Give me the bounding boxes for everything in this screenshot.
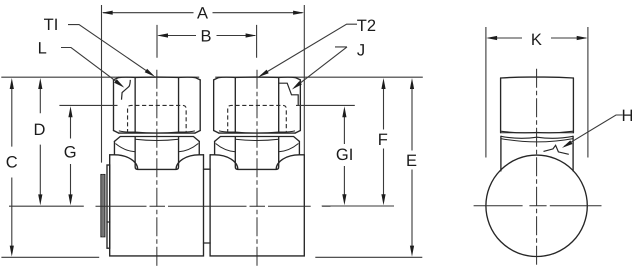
svg-text:H: H (622, 107, 632, 125)
svg-text:T2: T2 (357, 17, 376, 35)
svg-text:G: G (64, 143, 77, 161)
shoulder fillet arcs (114, 155, 137, 170)
nut facet lines (235, 78, 278, 133)
G reference line (59, 104, 117, 106)
main axis centerline (96, 205, 331, 207)
dim A extension lines (102, 5, 305, 163)
dim C line (11, 88, 13, 247)
dim K line (488, 37, 586, 39)
svg-text:D: D (33, 121, 45, 139)
D G bottom reference line (axis level) (9, 205, 84, 207)
svg-text:TI: TI (44, 16, 59, 34)
centerline unit2 vertical (256, 70, 258, 266)
svg-text:A: A (197, 4, 208, 22)
dim B line (159, 35, 256, 37)
coupling nut N2 outline (214, 80, 301, 131)
dim K extension lines (486, 27, 588, 158)
svg-text:K: K (531, 31, 542, 49)
leader T2 (261, 24, 357, 75)
svg-text:E: E (406, 152, 417, 170)
top reference line (nut top plane) (1, 76, 423, 78)
hidden thread (dashed) (128, 105, 187, 133)
leader T1 (68, 25, 153, 75)
end view lower hex sides (501, 136, 573, 171)
leader J (294, 47, 347, 88)
clamp body cylinder (110, 155, 204, 256)
end view nut bottom arcs (501, 131, 574, 133)
G1 reference line (296, 104, 355, 106)
body circle (end view) (486, 155, 587, 256)
svg-text:J: J (357, 41, 365, 59)
F G1 bottom reference line (322, 205, 394, 207)
lower hex flange (114, 137, 199, 142)
dim B extension lines (157, 25, 257, 58)
bottom reference line left (1, 256, 99, 258)
svg-text:B: B (200, 27, 211, 45)
nut facet lines (135, 78, 178, 133)
end view vertical centerline (536, 69, 538, 267)
thread runout mark J (279, 83, 299, 105)
leader L (61, 48, 122, 86)
dim G1 line (343, 116, 345, 196)
svg-text:C: C (6, 154, 18, 172)
side tab bar (shaded) (101, 175, 105, 237)
end view nut outline (501, 78, 574, 133)
svg-text:F: F (378, 131, 388, 149)
svg-text:L: L (38, 39, 47, 57)
thread runout mark H (544, 145, 569, 154)
dim F line (383, 88, 385, 196)
bridge web between bodies (204, 169, 211, 243)
end view lower hex top arcs (501, 136, 573, 138)
end view horizontal centerline (474, 205, 602, 207)
leader H (564, 115, 623, 146)
dim E line (411, 88, 413, 247)
side tab plate (107, 165, 110, 248)
svg-text:GI: GI (336, 146, 353, 164)
clamp body cylinder (210, 155, 304, 256)
coupling nut N1 outline (114, 80, 201, 131)
dim D line (39, 88, 41, 196)
shoulder fillet arcs (215, 155, 238, 170)
hidden thread (dashed) (228, 105, 287, 133)
bottom reference line right (315, 256, 422, 258)
centerline unit1 vertical (156, 70, 158, 266)
dim A line (103, 12, 303, 14)
lower hex flange (215, 137, 300, 142)
thread runout mark L (122, 80, 131, 100)
dim G line (70, 116, 72, 196)
